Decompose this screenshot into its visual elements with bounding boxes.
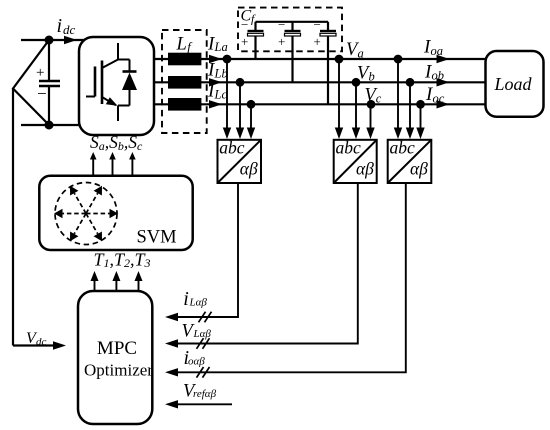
svg-text:La: La [214,40,228,54]
svg-text:i: i [57,15,63,37]
svg-text:MPC: MPC [97,338,137,359]
svg-text:Sa,Sb,Sc: Sa,Sb,Sc [90,132,143,153]
svg-text:oa: oa [431,44,444,58]
svg-text:−: − [37,84,47,103]
svg-text:abc: abc [219,137,245,157]
svg-text:αβ: αβ [240,158,258,178]
svg-text:+: + [314,34,321,49]
svg-text:Lαβ: Lαβ [193,328,212,340]
svg-text:refαβ: refαβ [193,388,217,400]
svg-text:Lαβ: Lαβ [189,296,208,308]
svg-text:abc: abc [336,137,362,157]
svg-text:i: i [183,288,189,310]
svg-text:ob: ob [432,69,445,83]
svg-text:−: − [241,17,248,32]
svg-text:a: a [358,46,364,60]
svg-text:SVM: SVM [137,228,177,248]
svg-text:oc: oc [433,91,445,105]
svg-text:T1,T2,T3: T1,T2,T3 [94,250,151,271]
svg-text:−: − [278,17,285,32]
svg-text:Lc: Lc [214,88,228,102]
svg-text:L: L [176,35,187,55]
svg-text:−: − [314,17,321,32]
svg-text:Optimizer: Optimizer [84,361,153,380]
svg-text:+: + [36,65,44,81]
svg-text:oαβ: oαβ [188,355,205,367]
svg-text:Lb: Lb [214,66,228,80]
svg-text:b: b [369,69,375,83]
svg-text:+: + [278,34,285,49]
svg-text:Load: Load [494,74,533,94]
svg-text:c: c [376,92,382,106]
svg-text:αβ: αβ [410,158,428,178]
svg-text:dc: dc [63,22,76,37]
svg-text:abc: abc [390,137,416,157]
svg-text:dc: dc [36,336,47,348]
svg-text:+: + [241,34,248,49]
svg-text:αβ: αβ [356,158,374,178]
